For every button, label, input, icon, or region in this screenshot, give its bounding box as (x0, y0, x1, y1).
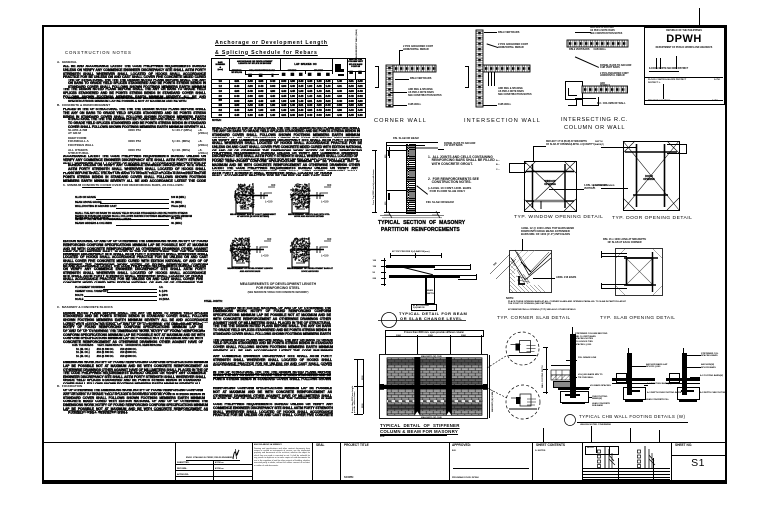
approved cell (452, 444, 471, 448)
svg-text:L=150: L=150 (321, 200, 329, 204)
footing detail 1 (570, 334, 576, 398)
slab opening caption (600, 315, 675, 320)
slab opening note (603, 238, 646, 244)
small dim 600 lower (388, 193, 390, 200)
partition notes right (428, 156, 495, 168)
stiffener wall w/ brick fill (379, 354, 488, 419)
development length figure D (284, 237, 346, 279)
svg-text:L=150: L=150 (321, 254, 329, 258)
window top leader (533, 146, 534, 161)
revision figure 1 (597, 445, 619, 469)
reinforcement leader rows (75, 288, 193, 290)
intersection wall caption (464, 118, 541, 124)
corner wall detail (386, 65, 393, 107)
CHB reinforcement list (72, 344, 162, 347)
certification text cell (254, 444, 282, 446)
window right leader (549, 188, 584, 191)
slab opening prongs (601, 253, 627, 254)
window opening detail (524, 161, 577, 213)
stiffener right dim (488, 355, 491, 418)
svg-text:300: 300 (327, 183, 332, 187)
footing caption (563, 413, 577, 427)
partition wall strip (dark coursed masonry) (406, 144, 417, 214)
svg-text:300: 300 (493, 261, 498, 266)
slab opening detail (615, 248, 663, 296)
sheet contents cell (536, 444, 565, 448)
note section C heading (57, 306, 113, 310)
svg-text:300: 300 (267, 237, 272, 241)
concrete strength sub-table (68, 128, 208, 130)
partition far-left dim (374, 150, 377, 212)
corner slab note bottom (506, 297, 514, 300)
svg-text:L=150: L=150 (261, 254, 269, 258)
development length figure A (228, 183, 290, 225)
intersecting rc column detail (567, 40, 628, 47)
door left leaders (601, 146, 637, 149)
partition caption (378, 220, 465, 226)
detail circle 2 (505, 384, 541, 420)
dashed leaders to circles (486, 350, 510, 405)
anchorage schedule title (215, 40, 328, 46)
corner wall dim bracket (377, 66, 380, 87)
stiffener caption (380, 423, 460, 428)
footing detail 2 (627, 353, 632, 395)
title block divider x=340 (340, 443, 341, 480)
note section D heading (57, 385, 82, 389)
door caption (612, 216, 692, 221)
corner wall caption (374, 118, 427, 124)
corner slab diag dims (488, 240, 528, 280)
section B paragraphs (63, 108, 206, 118)
title block divider x=532 (532, 443, 533, 480)
steel joints heading (204, 300, 223, 303)
masonry partition section (393, 137, 419, 140)
svg-text:300: 300 (327, 237, 332, 241)
window caption (514, 215, 603, 220)
svg-text:300: 300 (271, 183, 276, 187)
development length heading (228, 282, 328, 290)
project title cell (344, 444, 369, 448)
svg-text:L=150: L=150 (265, 200, 273, 204)
detail circle 1 (505, 331, 540, 366)
door opening detail (623, 141, 680, 212)
title block divider x=312 (312, 443, 313, 480)
intersection wall dim bracket (467, 66, 470, 87)
stiffener left dims (356, 359, 359, 415)
minimum cover leader rows (63, 184, 206, 188)
partition left outline (385, 142, 388, 213)
sheet no cell (675, 444, 692, 448)
corner slab detail (509, 250, 552, 293)
dpwh header box (644, 27, 725, 105)
development length figure B (284, 183, 346, 225)
stiffener span table (385, 330, 484, 337)
beam change caption bubble (378, 309, 468, 333)
signature cell (186, 457, 233, 459)
revision grid cell (585, 446, 610, 455)
development length figure C (224, 237, 286, 279)
window left stub (509, 163, 526, 173)
leader spikes above title block (542, 428, 545, 443)
small dim 600 upper (388, 147, 391, 158)
svg-text:MASONRY (W) CHB: MASONRY (W) CHB (421, 416, 442, 419)
rebar schedule table (211, 58, 366, 118)
seal cell header (316, 444, 325, 448)
title block divider x=175 (175, 443, 176, 480)
door right stub (667, 144, 687, 154)
spike above DPWH box (699, 8, 700, 30)
rc column square (565, 81, 583, 100)
svg defs ladder/brick/hatch patterns (0, 0, 1, 1)
note section B heading (57, 104, 110, 108)
section B items 7-9 paragraphs (63, 240, 208, 252)
intersection wall detail (476, 30, 483, 107)
title block divider x=449 (449, 443, 450, 480)
table notes (212, 119, 221, 122)
svg-text:MASONRY (W) CHB: MASONRY (W) CHB (421, 355, 442, 358)
beam slab change level detail (390, 254, 441, 257)
title block divider x=252 (252, 443, 253, 480)
footing 1 footing block (558, 387, 589, 390)
title block frame (42, 480, 725, 483)
title block divider x=671 (671, 443, 672, 480)
note section A general heading (57, 61, 77, 65)
revision figure 2 (637, 445, 659, 469)
construction notes title (65, 50, 132, 55)
partition ground line w/ breaks (384, 212, 440, 213)
dowel gray bar (408, 147, 438, 149)
footing detail 3 (682, 353, 687, 395)
sheet border frame (42, 25, 727, 484)
corner slab note (521, 227, 574, 237)
footing 1 left bracket (545, 347, 548, 394)
intersecting rc column caption (561, 117, 628, 123)
note section A paragraphs (63, 65, 206, 78)
corner slab right leader (533, 277, 555, 280)
title block divider x=582 (582, 443, 583, 480)
corner slab caption (497, 315, 571, 320)
